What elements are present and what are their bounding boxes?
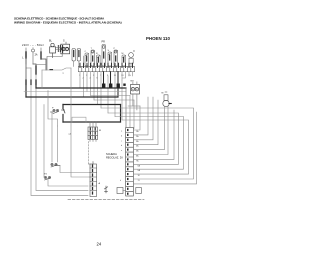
timer contact 2: [91, 50, 95, 66]
svg-text:PHOEN 110: PHOEN 110: [146, 36, 170, 41]
switch K1: [72, 49, 75, 62]
cn wire p2: [133, 97, 148, 135]
suppressor N segment: [40, 52, 42, 59]
svg-text:h: h: [120, 180, 121, 182]
connector pin marks: [127, 129, 129, 195]
svg-text:d: d: [121, 145, 122, 147]
wire thermal out: [44, 174, 88, 186]
component labels row: [85, 48, 124, 55]
svg-text:220V - ~ - 50Hz: 220V - ~ - 50Hz: [22, 43, 44, 47]
svg-text:M: M: [99, 130, 101, 132]
bold pin drops with terminals: [103, 72, 105, 84]
timer contact 7: [122, 55, 126, 66]
wire float out: [60, 166, 90, 173]
main rail left inner: [36, 75, 88, 191]
svg-text:24: 24: [97, 242, 102, 247]
cn wire p5 lamp left: [133, 106, 164, 149]
cn wire p8: [108, 113, 179, 164]
bold bus y88: [36, 87, 126, 89]
cn wire p3: [133, 97, 153, 140]
wire pressure mid: [51, 112, 53, 162]
svg-text:SCHEDA: SCHEDA: [106, 152, 117, 156]
timer contact 3: [97, 55, 101, 66]
wire link: [36, 64, 46, 66]
wire door lock to interlock: [56, 48, 63, 50]
suppressor L segment: [25, 52, 27, 58]
fuse F1: [32, 49, 35, 52]
cn bottom box left: [117, 188, 123, 194]
lever marks: [86, 51, 126, 58]
bold riser right: [120, 105, 122, 123]
thin bus y100: [94, 99, 134, 101]
thermo frame wire: [72, 117, 86, 122]
cn wire p4: [133, 100, 158, 145]
control board connector CN1: [126, 128, 134, 197]
bold riser left with contact gap: [62, 105, 64, 123]
wire frame y70: [42, 68, 71, 70]
pressure switch contact: [63, 109, 65, 114]
wire pressure right down: [57, 126, 59, 162]
wire branch L: [26, 67, 31, 69]
wire from fuse jog: [33, 64, 36, 75]
junction dot: [50, 69, 53, 71]
cn wire p12: [133, 112, 196, 184]
switch K2: [77, 49, 80, 62]
thermal switch S3: [44, 174, 51, 181]
main rail left outer: [31, 68, 88, 196]
aux connector verticals: [125, 88, 127, 127]
motor stubs up: [90, 122, 96, 127]
timer contact 5: [108, 52, 112, 66]
cn wire p11: [101, 108, 194, 179]
timer contact 4 tall PR: [102, 41, 106, 66]
wire x71 long: [71, 68, 90, 177]
filter tick A: [25, 80, 27, 85]
timer contact 6: [114, 50, 118, 66]
timer terminal strip: [78, 63, 134, 71]
wire bus y106: [128, 105, 140, 107]
wire frame x42: [41, 70, 43, 88]
pump motor LS: [162, 92, 172, 107]
connector left labels: [120, 131, 123, 183]
wire pressure left: [48, 91, 58, 127]
cn wire p10: [122, 120, 189, 174]
bold bus y122: [63, 121, 121, 123]
terminal tap: [123, 84, 125, 86]
svg-text:M: M: [162, 93, 164, 95]
chassis dashed line: [68, 198, 144, 200]
thin bus y95.5: [91, 95, 131, 97]
bold bus y97: [26, 96, 118, 98]
thin bus y91.5: [24, 91, 126, 93]
wire N mains: [40, 48, 42, 52]
thermostat F circle: [129, 50, 136, 67]
connector wire labels: [136, 130, 141, 182]
connector bars: [58, 46, 60, 52]
wire x44 rail: [43, 105, 45, 175]
float switch S2: [51, 163, 60, 167]
timer pin numbers: [79, 75, 132, 80]
pressure switch P1 cluster: [51, 108, 59, 114]
interference filter ticks: [35, 66, 37, 74]
svg-text:PR: PR: [102, 41, 106, 44]
cn wire p9: [115, 117, 184, 170]
motor M terminal block: [88, 127, 101, 140]
svg-text:M: M: [122, 53, 124, 55]
wire interlock down: [47, 54, 62, 70]
wire L mains: [25, 48, 27, 64]
bold bus y104.5: [63, 104, 121, 106]
cn bottom box right: [136, 188, 142, 194]
filter tick B: [30, 80, 32, 85]
svg-text:c: c: [121, 140, 122, 142]
cn wire p1: [133, 106, 140, 130]
filter tick C: [35, 80, 37, 85]
timer contact 1: [85, 53, 89, 66]
svg-text:2A: 2A: [35, 54, 38, 57]
svg-text:WIRING DIAGRAM - ESQUEMA ELECT: WIRING DIAGRAM - ESQUEMA ELECTRICO - INS…: [14, 20, 122, 24]
aux board connector CN2: [90, 162, 101, 197]
earth symbol: [104, 186, 107, 193]
cn wire p7: [133, 110, 174, 159]
wire to strip: [74, 56, 84, 67]
svg-text:REGOLAZ. DI: REGOLAZ. DI: [106, 155, 123, 159]
cn wire p6 lamp right: [133, 106, 168, 154]
wire N corner: [41, 59, 46, 70]
motor tacho T2: [131, 80, 140, 110]
motor block stubs bottom: [90, 140, 96, 142]
pin wires down: [79, 72, 81, 88]
bold bus riser: [25, 58, 27, 80]
motor block drop dashed: [88, 142, 90, 165]
